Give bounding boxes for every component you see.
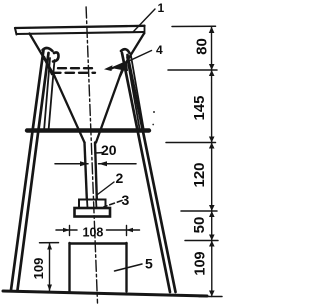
svg-text:120: 120 <box>191 162 208 187</box>
svg-text:5: 5 <box>145 256 153 272</box>
svg-text:50: 50 <box>191 217 208 234</box>
svg-text:109: 109 <box>31 258 46 280</box>
svg-text:145: 145 <box>191 95 208 120</box>
svg-text:3: 3 <box>122 192 130 208</box>
svg-text:109: 109 <box>193 251 209 275</box>
svg-text:4: 4 <box>156 43 163 57</box>
svg-text:1: 1 <box>158 1 165 15</box>
svg-text:2: 2 <box>116 170 124 186</box>
svg-text:108: 108 <box>83 226 104 240</box>
svg-text:20: 20 <box>101 142 117 158</box>
svg-text:80: 80 <box>194 38 211 55</box>
